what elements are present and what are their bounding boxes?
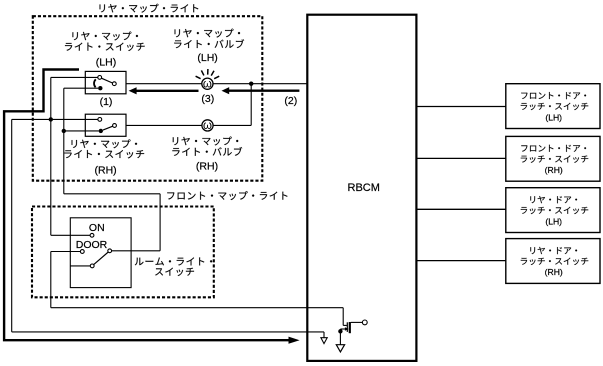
LH switch spring mark xyxy=(94,79,96,87)
svg-text:ω: ω xyxy=(203,120,212,132)
junction dot at bulb feed xyxy=(249,82,253,86)
svg-text:(RH): (RH) xyxy=(196,161,218,173)
svg-text:(LH): (LH) xyxy=(545,112,562,122)
svg-text:(1): (1) xyxy=(100,96,113,108)
front map light dashed enclosure box xyxy=(32,207,214,298)
svg-text:(2): (2) xyxy=(284,95,297,107)
wire: room switch pivot to box frame xyxy=(70,265,90,267)
room light switch box xyxy=(70,218,131,288)
rear map light switch (LH) box xyxy=(85,71,126,93)
thick battery feed wire: top stub, down left side to bottom arrow into RBCM xyxy=(4,70,289,341)
transistor drain lead to output circle xyxy=(351,321,363,323)
label: rear map light switch (RH) 3 lines xyxy=(72,139,138,148)
room switch common contact xyxy=(108,249,112,253)
svg-text:DOOR: DOOR xyxy=(76,239,108,251)
wire: RH switch output to RH bulb xyxy=(126,124,202,126)
svg-text:(RH): (RH) xyxy=(545,165,563,175)
label: rear map light (riya mappu raito) xyxy=(100,4,199,13)
ground symbol (small) on ground net xyxy=(321,338,327,344)
switched net wire: LH switch moving contact down to room switch common xyxy=(64,87,98,89)
rear map light switch (RH) box xyxy=(85,114,126,136)
flow arrow (2) pointing left at LH bulb xyxy=(222,87,230,94)
LH switch output contact xyxy=(112,82,116,86)
ground net wire: horizontal to RH switch fixed contact, down left side, into RBCM to ground xyxy=(12,118,98,120)
rear map light bulb LH (lit, with rays) xyxy=(202,78,213,89)
front door latch switch (RH) box xyxy=(506,136,600,181)
svg-text:(LH): (LH) xyxy=(96,57,116,69)
junction dot switched net xyxy=(62,129,66,133)
wire: RBCM to front door latch switch (RH) xyxy=(416,157,505,159)
room switch ON contact xyxy=(90,233,94,237)
svg-text:(LH): (LH) xyxy=(545,216,562,226)
room switch lever xyxy=(94,252,109,265)
wire: RBCM to front door latch switch (LH) xyxy=(416,106,505,108)
svg-text:RBCM: RBCM xyxy=(348,182,380,194)
junction dot ground net xyxy=(49,117,53,121)
room switch DOOR contact xyxy=(80,250,84,254)
RH switch lever xyxy=(103,126,113,130)
RBCM box xyxy=(307,15,416,361)
wire: LH bulb to RBCM xyxy=(213,83,307,85)
rear door latch switch (RH) box xyxy=(506,239,600,284)
label: front map light xyxy=(167,191,287,200)
transistor Q1 (output driver) gate bar xyxy=(346,322,348,332)
label: rear map light bulb (RH) 3 lines xyxy=(173,137,239,146)
transistor source lead with arrow xyxy=(340,328,345,330)
LH switch lever (closed to top contact) xyxy=(101,78,112,83)
RH switch moving contact (filled) xyxy=(99,129,103,133)
label: rear map light bulb (LH) 3 lines xyxy=(175,29,241,38)
svg-text:ω: ω xyxy=(203,79,212,91)
LH switch moving fixed contact (filled) xyxy=(98,86,102,90)
svg-text:(LH): (LH) xyxy=(197,52,217,64)
RH switch output contact xyxy=(113,124,117,128)
wire: RBCM to rear door latch switch (LH) xyxy=(416,208,505,210)
label: rear map light switch (LH) 3 lines xyxy=(72,32,138,41)
rear door latch switch (LH) box xyxy=(506,188,600,233)
transistor drain output circle xyxy=(362,320,367,325)
wire from left ground net down to RBCM internal ground xyxy=(323,332,325,338)
svg-text:(RH): (RH) xyxy=(545,267,563,277)
svg-text:(RH): (RH) xyxy=(95,164,117,176)
LH switch top fixed contact xyxy=(98,76,102,80)
flow arrow (3) pointing left at LH switch xyxy=(129,87,137,94)
ground symbol under transistor source xyxy=(336,345,344,352)
front door latch switch (LH) box xyxy=(506,84,600,129)
arrowhead of feed wire pointing right at RBCM xyxy=(289,337,300,344)
LH bulb light rays xyxy=(196,76,201,79)
wire: RBCM to rear door latch switch (RH) xyxy=(416,260,505,262)
wire: branch of ground net to LH switch top contact and room switch ON contact xyxy=(51,76,98,78)
wire: LH switch output to LH bulb xyxy=(126,83,202,85)
rear map light bulb RH xyxy=(202,120,213,131)
label: room light switch 2 lines xyxy=(135,257,212,265)
room switch lower pivot contact xyxy=(90,264,94,268)
svg-text:ON: ON xyxy=(89,222,105,234)
door input net: DOOR contact wire down and right into RBCM to transistor gate xyxy=(51,251,81,253)
wire: RH bulb right side up to junction xyxy=(213,124,251,126)
rear map light dashed enclosure box xyxy=(33,16,262,181)
junction dot at source xyxy=(338,329,342,333)
RH switch top fixed contact xyxy=(98,118,102,122)
transistor channel bar xyxy=(349,322,351,333)
svg-text:(3): (3) xyxy=(201,93,214,105)
